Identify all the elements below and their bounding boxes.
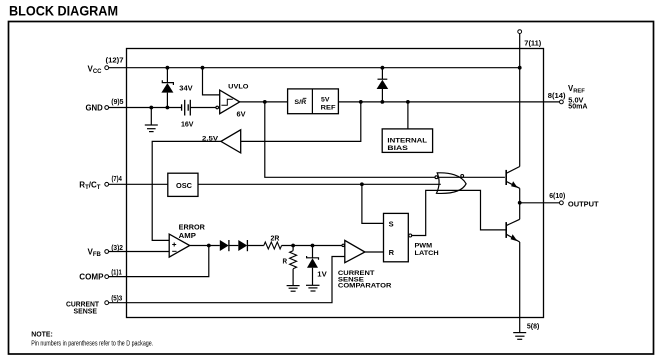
pin OUTPUT circle	[560, 201, 564, 205]
node zener top junction	[166, 66, 170, 70]
block INTERNAL BIAS	[382, 129, 432, 153]
node VREF diode top junction	[381, 66, 385, 70]
svg-text:OSC: OSC	[176, 183, 192, 190]
wire OSC output to OR gate	[198, 183, 441, 185]
wire VFB pin to error amp minus input	[109, 251, 169, 253]
svg-text:16V: 16V	[181, 121, 194, 128]
wire VCC rail	[109, 67, 520, 69]
wire pin 7(11) down to upper collector	[519, 34, 521, 167]
resistor 2R	[264, 242, 282, 249]
wire output node to OUTPUT pin	[520, 202, 560, 204]
wire 2.5V buffer output to error amp plus input	[152, 141, 221, 240]
svg-text:5V: 5V	[321, 96, 330, 103]
pin 7(11) circle	[518, 30, 522, 34]
svg-text:R: R	[389, 248, 395, 257]
svg-text:BIAS: BIAS	[387, 145, 408, 152]
svg-text:GND: GND	[86, 104, 104, 113]
wire GND pin to battery	[109, 107, 182, 109]
svg-text:2.5V: 2.5V	[202, 136, 219, 143]
svg-text:50mA: 50mA	[568, 101, 587, 110]
svg-text:INTERNAL: INTERNAL	[387, 137, 427, 144]
wire internal bias feed	[407, 102, 409, 129]
svg-text:(7)4: (7)4	[112, 174, 122, 183]
op-amp UVLO comparator	[216, 90, 240, 114]
svg-text:SENSE: SENSE	[74, 307, 98, 316]
wire CURRENT SENSE pin to comparator minus input	[109, 257, 345, 303]
node 2.5V feed junction	[359, 100, 363, 104]
wire RT/CT pin to OSC	[109, 183, 168, 185]
ground under R	[287, 286, 300, 292]
op-amp 2.5V buffer	[221, 130, 241, 153]
pin VREF circle	[560, 100, 564, 104]
wire 2R to comparator node	[282, 245, 342, 247]
wire OSC branch to latch S input	[362, 184, 384, 223]
pin VFB circle	[105, 250, 109, 254]
block OSC	[168, 173, 198, 196]
wire D2 to 2R	[247, 245, 263, 247]
pin CURRENT SENSE circle	[105, 301, 109, 305]
wire latch Q output to lower transistor base	[412, 190, 506, 235]
node output totem junction	[518, 201, 522, 205]
svg-text:2R: 2R	[271, 235, 280, 242]
svg-text:7(11): 7(11)	[524, 39, 542, 48]
IC boundary box	[127, 49, 544, 318]
op-amp current sense comparator	[342, 240, 365, 262]
node R divider junction	[291, 244, 295, 248]
diode to VREF	[377, 68, 389, 102]
svg-text:OUTPUT: OUTPUT	[568, 199, 599, 208]
OR gate input bubble	[435, 176, 438, 179]
svg-text:(3)2: (3)2	[111, 243, 123, 252]
latch U-PWM	[384, 213, 412, 261]
node GND ground-stem junction	[149, 106, 153, 110]
node VCC pin7 junction	[518, 66, 522, 70]
svg-text:(12)7: (12)7	[106, 55, 124, 64]
wire COMP pin to error amp output	[109, 246, 209, 277]
node latch S branch junction	[360, 182, 364, 186]
wire comparator output to latch R	[365, 251, 384, 253]
op-amp error amplifier	[169, 234, 190, 257]
svg-text:1V: 1V	[317, 272, 327, 279]
wire UVLO output / VREF line left part	[240, 101, 288, 103]
zener diode 1V	[307, 246, 319, 286]
svg-text:PWM: PWM	[415, 242, 433, 249]
svg-text:(1)1: (1)1	[111, 267, 122, 276]
node internal bias junction	[406, 100, 410, 104]
svg-text:8(14): 8(14)	[548, 91, 566, 100]
OR gate	[437, 173, 467, 194]
svg-text:5(8): 5(8)	[527, 322, 540, 331]
wire error amp output to diodes	[190, 245, 220, 247]
zener diode 34V	[161, 68, 173, 108]
svg-text:ERROR: ERROR	[179, 225, 205, 232]
svg-text:COMPARATOR: COMPARATOR	[338, 283, 392, 290]
node UVLO plus feed junction	[201, 66, 205, 70]
svg-text:6(10): 6(10)	[549, 191, 566, 200]
resistor R	[290, 246, 297, 286]
transistor Q1 upper	[506, 167, 520, 203]
wire UVLO output down to gate line	[265, 102, 505, 177]
wire VREF line right part	[338, 101, 559, 103]
node error amp output junction	[207, 244, 211, 248]
svg-text:UVLO: UVLO	[228, 84, 248, 91]
block S/R 5V REF	[288, 89, 339, 114]
svg-text:Pin numbers in parentheses ref: Pin numbers in parentheses refer to the …	[31, 338, 153, 347]
node UVLO output junction	[263, 100, 267, 104]
svg-text:(9)5: (9)5	[111, 97, 123, 106]
svg-text:S/R: S/R	[294, 99, 306, 106]
node 1V zener junction	[311, 244, 315, 248]
svg-text:BLOCK DIAGRAM: BLOCK DIAGRAM	[9, 3, 118, 19]
svg-text:LATCH: LATCH	[415, 250, 439, 257]
pin VCC circle	[105, 66, 109, 70]
wire diode D1 to D2	[229, 245, 238, 247]
OR gate output bubble	[461, 175, 464, 178]
ground under 1V zener	[306, 285, 320, 291]
wire VREF to 2.5V buffer input	[241, 102, 361, 141]
svg-text:6V: 6V	[237, 112, 246, 119]
transistor Q2 lower	[506, 203, 520, 242]
wire VCC to UVLO plus input	[203, 68, 220, 95]
wire battery to UVLO inverting input	[190, 107, 216, 109]
svg-text:34V: 34V	[179, 86, 193, 93]
node VREF diode bottom junction	[381, 100, 385, 104]
svg-text:REF: REF	[321, 105, 336, 112]
svg-text:(5)3: (5)3	[111, 293, 122, 302]
pin GND circle	[105, 106, 109, 110]
svg-text:R: R	[283, 259, 288, 266]
diode D2	[238, 240, 247, 251]
diode D1	[220, 240, 229, 251]
ground near GND pin	[145, 108, 158, 132]
battery 16V	[182, 100, 191, 116]
svg-text:NOTE:: NOTE:	[31, 330, 53, 339]
node zener bottom junction	[166, 106, 170, 110]
svg-text:COMP: COMP	[79, 273, 104, 282]
ground 5(8)	[513, 333, 526, 340]
wire lower emitter down to ground	[519, 242, 521, 333]
pin COMP circle	[105, 275, 109, 279]
svg-text:AMP: AMP	[179, 233, 197, 240]
svg-text:S: S	[389, 220, 394, 229]
pin RT/CT circle	[105, 182, 109, 186]
